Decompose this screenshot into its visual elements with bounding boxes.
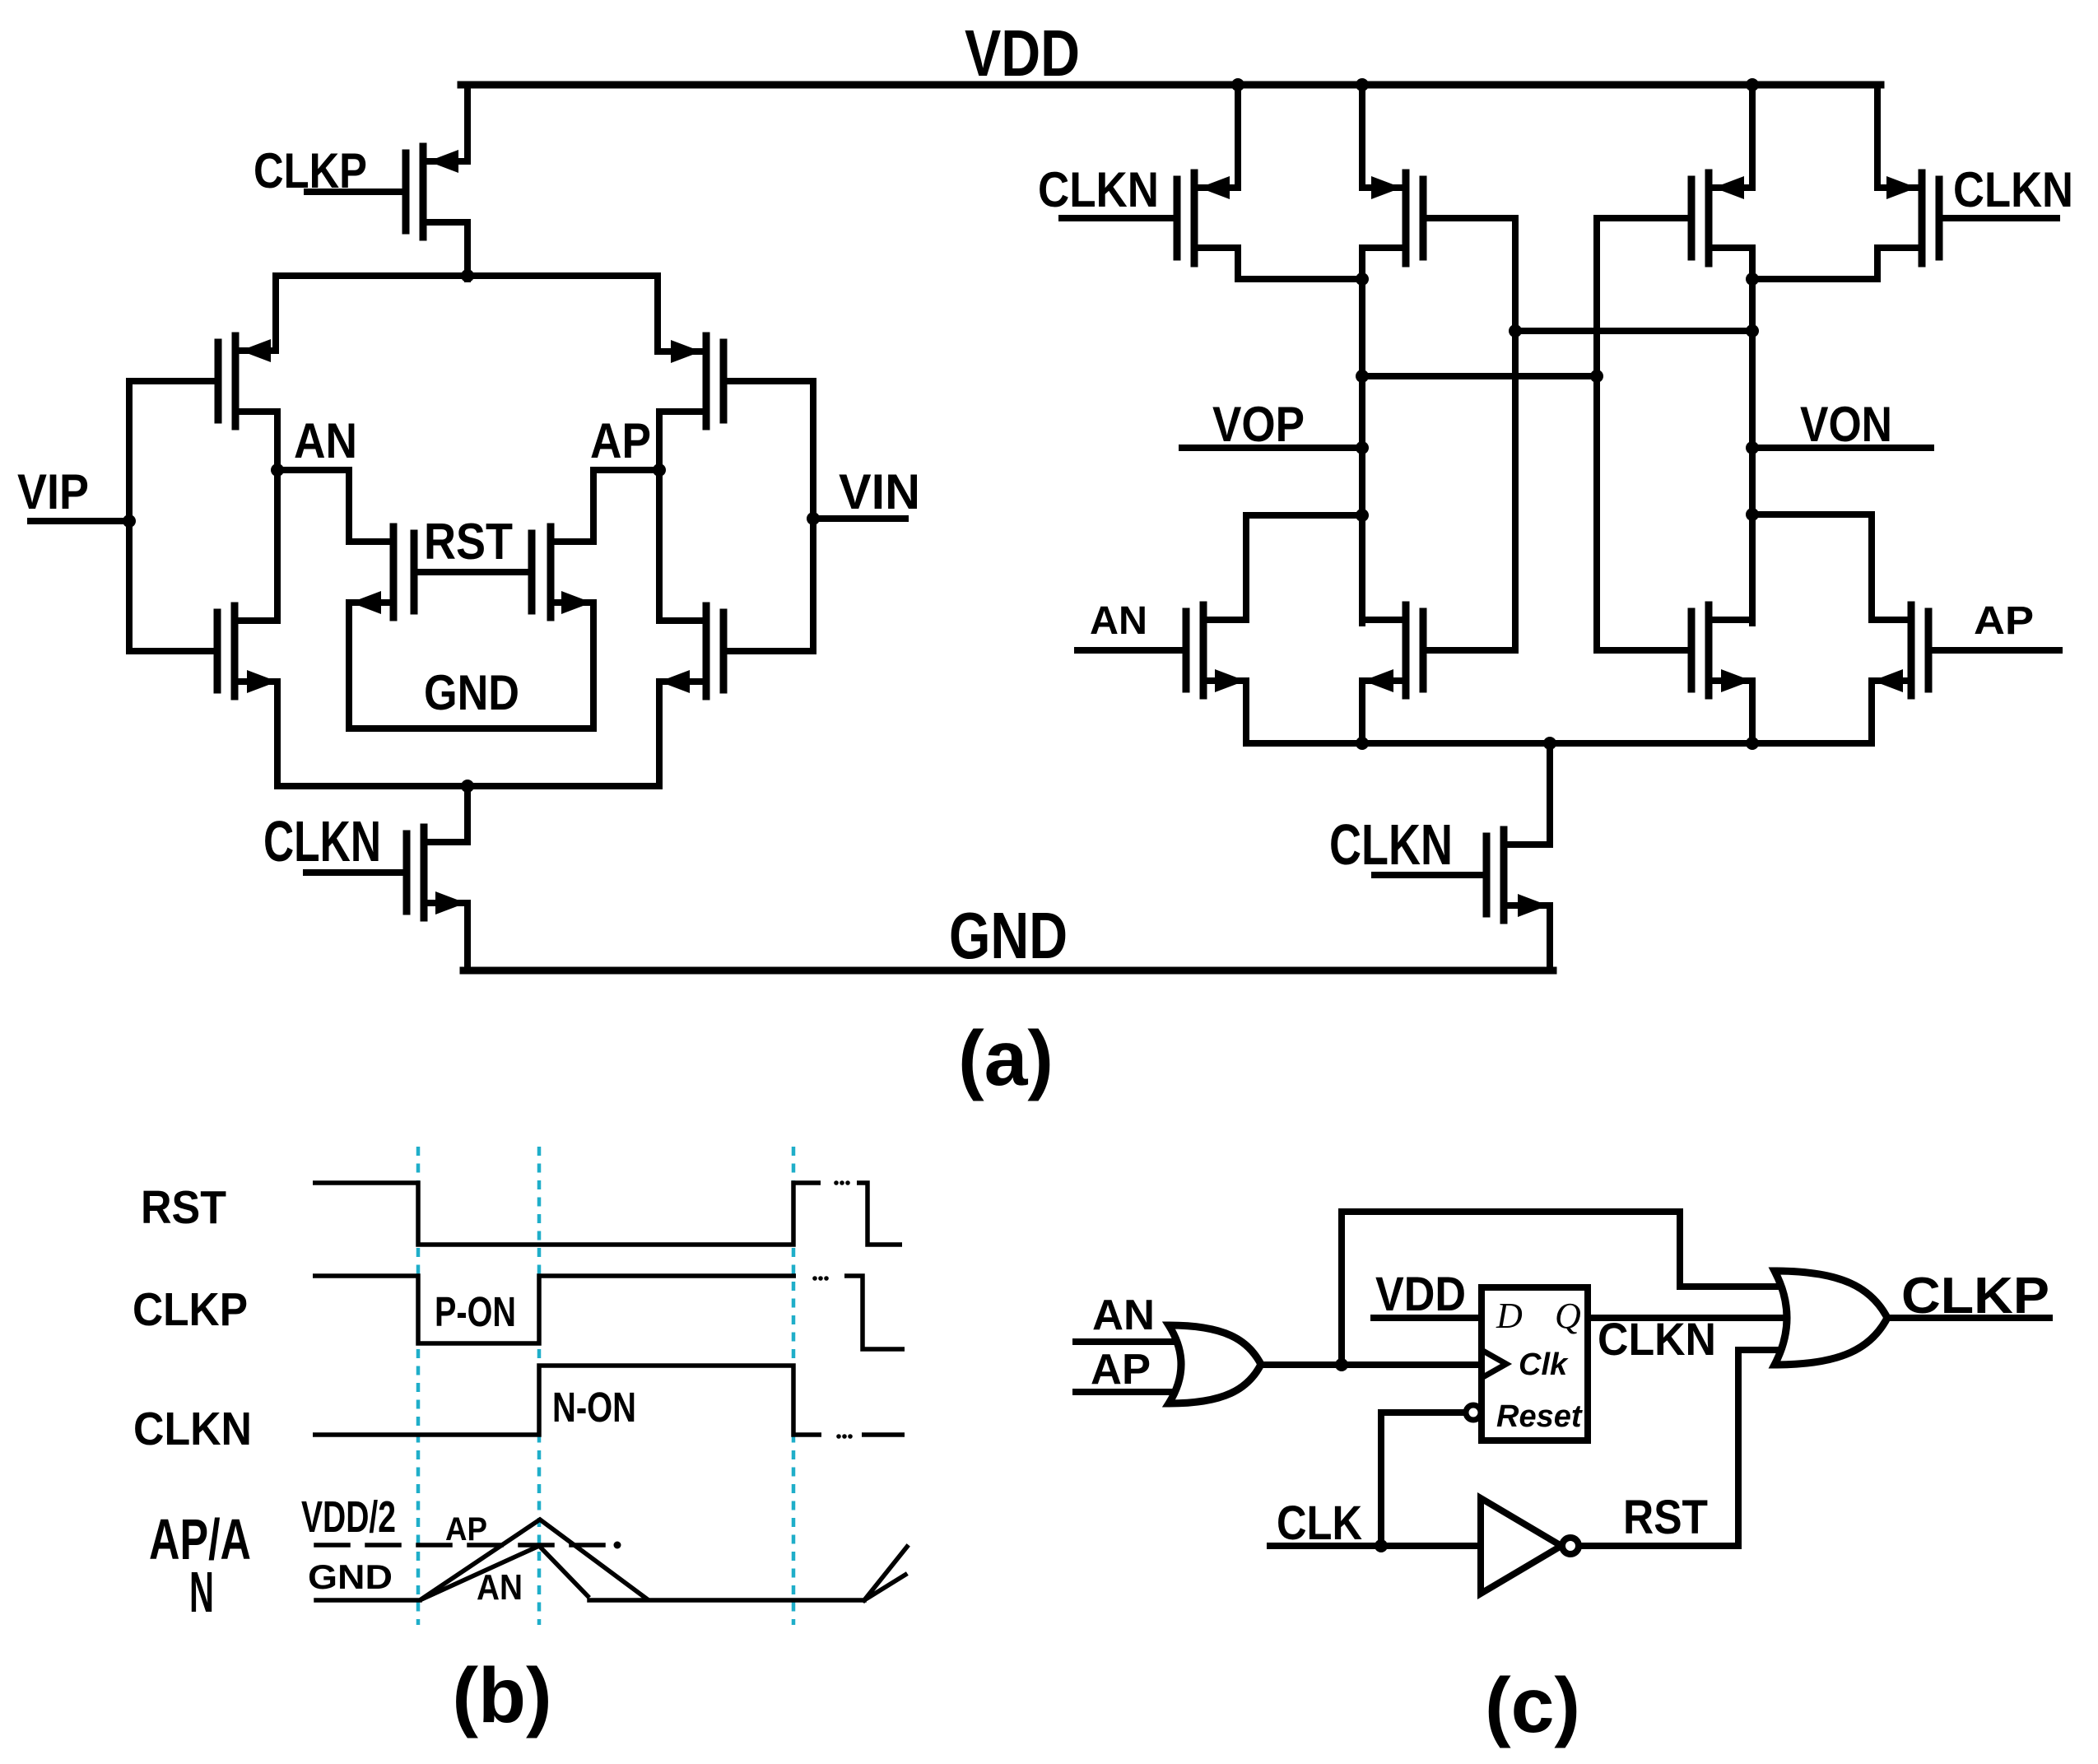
svg-text:AN: AN (294, 413, 357, 468)
svg-text:Q: Q (1555, 1296, 1581, 1336)
svg-text:CLKN: CLKN (133, 1403, 252, 1455)
svg-text:CLKN: CLKN (1038, 162, 1159, 217)
svg-text:D: D (1496, 1296, 1523, 1336)
svg-text:N-ON: N-ON (552, 1384, 636, 1431)
svg-text:RST: RST (1623, 1491, 1708, 1544)
svg-text:(a): (a) (958, 1015, 1054, 1102)
svg-text:Clk: Clk (1519, 1347, 1569, 1382)
svg-text:P-ON: P-ON (435, 1288, 516, 1335)
svg-text:GND: GND (949, 899, 1068, 972)
svg-text:VDD: VDD (1375, 1268, 1466, 1321)
svg-text:CLK: CLK (1277, 1496, 1362, 1550)
svg-text:RST: RST (141, 1181, 226, 1234)
svg-text:Reset: Reset (1496, 1399, 1583, 1434)
svg-text:CLKN: CLKN (1598, 1313, 1716, 1365)
svg-text:AP: AP (590, 413, 651, 468)
svg-text:AP: AP (1091, 1346, 1151, 1394)
svg-text:CLKP: CLKP (1901, 1268, 2049, 1324)
svg-text:AN: AN (1092, 1292, 1155, 1339)
svg-text:N: N (189, 1560, 214, 1624)
svg-text:RST: RST (424, 514, 513, 570)
svg-text:CLKN: CLKN (1953, 162, 2073, 217)
svg-text:CLKP: CLKP (133, 1283, 248, 1336)
svg-text:CLKN: CLKN (1329, 812, 1453, 877)
svg-text:(b): (b) (452, 1652, 551, 1739)
svg-text:(c): (c) (1485, 1662, 1580, 1749)
svg-text:VIP: VIP (17, 464, 89, 519)
svg-text:GND: GND (424, 665, 519, 720)
svg-text:AP: AP (445, 1511, 487, 1548)
svg-text:VDD: VDD (965, 16, 1080, 90)
svg-text:VDD/2: VDD/2 (301, 1492, 396, 1542)
svg-text:VON: VON (1800, 397, 1892, 452)
svg-text:CLKN: CLKN (263, 809, 381, 873)
svg-text:GND: GND (308, 1557, 393, 1596)
svg-text:VIN: VIN (839, 464, 920, 519)
svg-text:AP: AP (1974, 599, 2034, 643)
svg-text:AN: AN (1090, 599, 1147, 643)
svg-text:VOP: VOP (1212, 397, 1305, 452)
